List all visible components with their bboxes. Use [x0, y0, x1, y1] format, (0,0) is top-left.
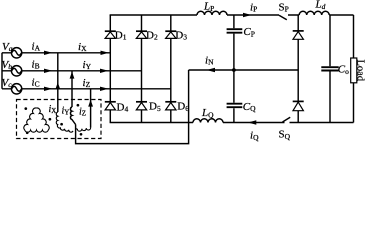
- arrow winding X up: [55, 82, 60, 89]
- diode bridge column 1: [109, 15, 111, 123]
- arrow iZ: [100, 87, 109, 91]
- wire drop X: [57, 53, 59, 112]
- source Va: [11, 48, 21, 58]
- svg-text:Load: Load: [355, 60, 366, 82]
- bus top: [110, 14, 354, 16]
- wire neutral tie of sources: [2, 53, 11, 89]
- diode D1: [105, 31, 116, 38]
- load box: [351, 58, 357, 83]
- wire row phase B: [22, 70, 142, 72]
- wire drop Z: [90, 89, 92, 128]
- capacitor Cp column: [233, 15, 235, 123]
- winding zigzag Y: [70, 107, 75, 125]
- freewheel diode column: [297, 15, 299, 123]
- arrow iX: [101, 51, 110, 55]
- wire row phase A: [22, 52, 111, 54]
- source Vb: [11, 66, 21, 76]
- transformer box dashed: [17, 100, 102, 139]
- arrow iB: [44, 69, 53, 73]
- inductor Lp: [197, 11, 227, 15]
- inductor Ld: [299, 11, 329, 15]
- switch Sp: [279, 15, 287, 20]
- polarity dot winding Y: [77, 104, 80, 107]
- arrow winding Y up: [70, 72, 75, 79]
- arrow iQ left: [248, 120, 256, 124]
- polarity dot delta bottom: [26, 131, 29, 134]
- diode D3: [165, 31, 176, 38]
- capacitor Co plates: [321, 67, 338, 70]
- inductor Lq: [193, 119, 223, 123]
- wire drop Y: [71, 71, 73, 107]
- diode D5: [136, 102, 147, 110]
- wire rail iN: [189, 69, 299, 71]
- winding delta: [24, 108, 49, 132]
- arrow iC: [44, 87, 53, 91]
- polarity dot winding X: [60, 123, 63, 126]
- wire neutral return: [76, 70, 189, 144]
- arrow iP: [243, 13, 252, 17]
- arrow iA: [44, 51, 53, 55]
- capacitor Cq plates: [227, 104, 243, 108]
- arrow iN left: [207, 68, 216, 72]
- diode D4: [105, 102, 116, 110]
- wire row phase C: [22, 88, 171, 90]
- winding zigzag Z: [76, 128, 91, 132]
- diode D6: [165, 102, 176, 110]
- bus right: [353, 15, 355, 123]
- diode D2: [136, 31, 147, 38]
- diode bridge column 3: [170, 15, 172, 123]
- bus bottom: [110, 122, 354, 124]
- source Vc: [11, 84, 21, 94]
- arrow winding Z up: [88, 100, 93, 107]
- capacitor Co column: [329, 15, 331, 123]
- polarity dot delta right: [49, 118, 52, 121]
- polarity dot delta top: [24, 107, 27, 110]
- freewheel diode lower: [293, 101, 304, 110]
- capacitor Cp plates: [227, 29, 243, 33]
- svg-text:Ld: Ld: [315, 0, 326, 11]
- winding zigzag X: [56, 112, 73, 132]
- switch Sq: [283, 117, 291, 122]
- diode bridge column 2: [141, 15, 143, 123]
- polarity dot winding Z: [80, 133, 83, 136]
- freewheel diode upper: [293, 31, 304, 39]
- junction node Cp-Cq midpoint: [232, 68, 236, 72]
- arrow iY: [100, 69, 109, 73]
